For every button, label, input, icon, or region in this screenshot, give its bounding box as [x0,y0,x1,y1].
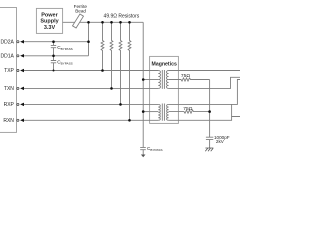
svg-text:Power: Power [41,12,58,18]
svg-text:CBYPASS: CBYPASS [57,45,73,51]
wire TXP [24,70,158,72]
junction node rail-R3 [119,21,122,24]
pin arrow TXP [20,69,24,73]
capacitor C2 bypass [51,56,56,71]
resistor R4 49.9 ohm [128,22,131,120]
resistor R1 49.9 ohm [101,22,104,70]
junction node rail-R2 [110,21,113,24]
transformer T2 core [162,104,164,121]
pin circle DD1A [17,55,19,57]
svg-text:RXN: RXN [3,118,14,124]
wire TD- to RJ45 [169,77,240,88]
wire RXN [24,119,158,121]
wire DD1A [24,55,89,57]
wire rail right drop to center taps and bypass cap [142,22,144,147]
junction node CT2 [142,110,145,113]
svg-text:3.3V: 3.3V [44,25,56,31]
junction node termination-R6 [208,110,211,113]
wire RD- to RJ45 [169,117,240,121]
svg-text:Supply: Supply [40,19,59,25]
junction node TXN-R2 [110,87,113,90]
junction node RXN-R4 [128,119,131,122]
wire RD+ to RJ45 [169,80,240,105]
magnetics box outline [150,56,179,123]
pin arrow RXN [20,119,24,123]
capacitor C3 bypass bottom [140,147,146,154]
junction node TXP-C2 [53,70,55,72]
junction node DD2A-C1 [52,40,55,43]
pin circle RXN [17,119,19,121]
svg-text:RXP: RXP [4,102,15,108]
svg-text:DD1A: DD1A [1,54,15,60]
power supply box [36,8,62,33]
transformer T2 primary winding [158,104,160,120]
svg-text:75Ω: 75Ω [181,73,190,79]
wire VDD drop to DD2A DD1A [88,22,90,56]
wire power supply to ferrite to rail [63,21,144,23]
pin arrow DD1A [20,54,24,58]
wire termination node vertical [209,80,211,138]
pin circle TXP [17,69,19,71]
ground chassis under C4 [205,148,213,151]
resistor R2 49.9 ohm [110,22,113,88]
pin arrow TXN [20,87,24,91]
transformer T1 primary winding [158,71,160,89]
svg-text:TXN: TXN [4,86,14,92]
svg-text:TXP: TXP [4,68,14,74]
pin circle DD2A [17,41,19,43]
ferrite bead FB1 [73,14,84,28]
junction node TXP-R1 [101,69,104,72]
junction node rail-R4 [128,21,131,24]
junction node rail-VDD [87,21,90,24]
wire TD+ to RJ45 [169,70,240,72]
transformer T2 secondary winding [167,104,169,120]
svg-text:Magnetics: Magnetics [152,61,177,67]
PHY IC box [0,8,17,133]
wire TXN [24,87,158,89]
wire RXP [24,103,158,105]
resistor R3 49.9 ohm [119,22,122,104]
transformer T1 core [162,70,164,89]
svg-text:75Ω: 75Ω [183,106,192,112]
svg-text:2kV: 2kV [216,139,225,144]
svg-text:Bead: Bead [75,8,86,13]
pin circle TXN [17,87,19,89]
pin circle RXP [17,103,19,105]
junction node CT1 [142,78,145,81]
resistor R6 75 ohm with leads [169,110,210,113]
junction node DD1A-C1-C2 [52,55,55,58]
wire DD2A [24,41,89,43]
wire center tap T1 primary [143,79,158,81]
junction node rail-R1 [101,21,104,24]
wire center tap T2 primary [143,111,158,113]
svg-text:DD2A: DD2A [1,39,15,45]
junction node RXP-R3 [119,103,122,106]
wire RJ45 stub vertical [231,104,233,116]
svg-text:CBYPASS: CBYPASS [147,146,163,152]
transformer T1 secondary winding [166,71,168,89]
pin arrow DD2A [20,40,24,44]
capacitor C4 1000pF 2kV [206,137,213,148]
pin arrow RXP [20,103,24,107]
svg-text:CBYPASS: CBYPASS [57,59,73,65]
resistor R5 75 ohm with leads [169,78,210,81]
capacitor C1 bypass [51,42,56,56]
ground under C3 [141,155,146,158]
junction node DD2A-VDD [87,40,90,43]
svg-text:49.9Ω Resistors: 49.9Ω Resistors [104,14,140,20]
